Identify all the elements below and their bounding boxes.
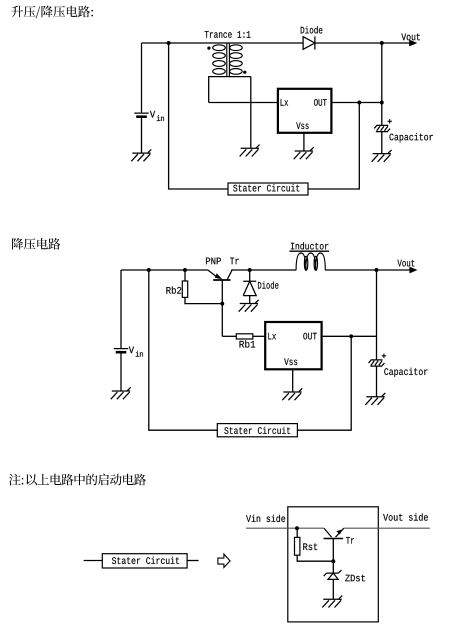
wire: Vout side wire <box>344 527 430 529</box>
wire: rail inductor to Vout <box>325 269 411 271</box>
wire: OUT to Vout column, circuit 1 <box>332 102 382 104</box>
wire: stater box left lead, detail <box>84 560 103 562</box>
label Vin (circuit 2) <box>129 347 143 357</box>
ground (secondary, circuit 1) <box>240 145 260 157</box>
ground (capacitor, circuit 2) <box>365 393 385 405</box>
pin label Lx (U1) <box>281 99 289 106</box>
capacitor (C1) <box>374 125 390 131</box>
stater circuit box S2 <box>217 424 297 437</box>
wire: diode anode lead <box>249 296 251 304</box>
label Capacitor (C2) <box>384 368 427 377</box>
op-amp/regulator IC U2 <box>265 322 321 369</box>
junction node (Rb2 tap) <box>183 268 187 272</box>
capacitor (C2) <box>369 360 385 366</box>
stater circuit box S3 <box>102 554 187 568</box>
label Vout side <box>383 513 428 520</box>
polarity dot (secondary) <box>243 71 246 74</box>
junction node (base/Rb2 junction) <box>220 302 224 306</box>
label Capacitor (C1) <box>390 133 433 142</box>
label Rb1 <box>240 340 256 347</box>
detail enclosure box <box>288 507 379 622</box>
inductor L1 <box>296 253 325 270</box>
wire: top rail to PNP emitter <box>121 269 208 271</box>
ground (capacitor, circuit 1) <box>372 150 392 162</box>
wire: stater circuit left feed <box>169 43 228 189</box>
wire: Rb2 top lead <box>184 270 186 281</box>
label Stater Circuit (circuit 1) <box>233 184 299 191</box>
section title: 注:以上电路中的启动电路 <box>9 474 146 486</box>
ground (battery, circuit 2) <box>111 387 131 399</box>
label Tr (startup) <box>346 537 354 544</box>
wire: base column to zener <box>332 539 334 574</box>
wire: battery negative to ground <box>141 117 143 153</box>
polarity dot (primary) <box>207 47 210 50</box>
op-amp/regulator IC U1 <box>278 89 332 133</box>
battery V2 Vin (circuit 2) <box>114 348 128 350</box>
ground (Vss, circuit 2) <box>282 388 302 400</box>
ground (diode, circuit 2) <box>239 300 259 312</box>
junction node (diode tap, circuit 2) <box>248 268 252 272</box>
wire: Lx feed, circuit 1 <box>209 102 277 104</box>
wire: battery negative to ground, circuit 2 <box>120 352 122 391</box>
wire: Rst top lead <box>296 528 298 537</box>
wire: stater box right lead, detail <box>187 560 199 562</box>
wire: rail PNP collector to inductor <box>231 269 296 271</box>
transformer core <box>227 43 230 76</box>
label Inductor <box>291 242 328 249</box>
diode D1 <box>303 36 315 49</box>
ground (battery, circuit 1) <box>131 149 151 161</box>
wire: inductor label underline <box>289 250 329 252</box>
label Diode (circuit 1) <box>301 26 323 33</box>
wire: Vss pin, circuit 2 <box>292 370 294 392</box>
section title: 降压电路 <box>12 238 60 250</box>
label Rb2 <box>166 286 181 293</box>
stater circuit box S1 <box>228 183 308 195</box>
transistor Q2 Tr (startup) <box>324 538 344 540</box>
wire: Vout column, circuit 2 <box>376 270 378 360</box>
pin label OUT (U2) <box>303 333 317 340</box>
label ZDst <box>345 575 365 582</box>
label Vout (circuit 2) <box>397 260 414 267</box>
pin label Vss (U2) <box>284 358 297 365</box>
wire: rail corner down to battery <box>120 270 122 349</box>
junction node (base/Rst junction) <box>331 559 335 563</box>
wire: stater circuit left feed, circuit 2 <box>149 270 218 430</box>
battery V1 Vin (circuit 1) <box>134 43 148 113</box>
label Rst <box>303 543 317 550</box>
wire: Vin side wire <box>246 527 324 529</box>
wire: Rb1 right lead <box>253 335 265 337</box>
zener diode ZDst <box>324 570 342 576</box>
wire: rail diode cathode to Vout <box>315 42 411 44</box>
wire: capacitor to ground, circuit 2 <box>376 366 378 397</box>
label Tr (circuit 2) <box>230 258 239 265</box>
wire: stater circuit right feed, circuit 2 <box>297 336 351 430</box>
label Vin side <box>246 515 285 522</box>
pin label Vss (U1) <box>296 122 308 129</box>
wire: OUT to Vout column, circuit 2 <box>323 335 377 337</box>
label Stater Circuit (detail) <box>112 557 179 564</box>
wire: Rst bottom to base <box>297 555 333 561</box>
label Vout (circuit 1) <box>401 34 420 41</box>
wire: base column to Rb1 <box>221 280 223 336</box>
junction node (Vout column tap, circuit 2) <box>375 268 379 272</box>
wire: diode cathode lead <box>249 270 251 281</box>
pin label OUT (U1) <box>314 99 327 106</box>
wire: capacitor to ground, circuit 1 <box>381 132 383 154</box>
junction node (stater right tap, circuit 2) <box>349 334 353 338</box>
junction node (stater right tap, circuit 1) <box>357 101 361 105</box>
wire: secondary to ground <box>250 77 252 149</box>
wire: Rb1 left lead <box>222 335 236 337</box>
label Vin (circuit 1) <box>150 111 164 121</box>
ground (Vss, circuit 1) <box>294 147 314 159</box>
junction node (stater tap, circuit 1) <box>167 41 171 45</box>
Vout arrow (circuit 2) <box>409 267 417 274</box>
ground (zener) <box>322 596 342 608</box>
junction node (Vout column tap, circuit 1) <box>380 41 384 45</box>
plus sign (C1) <box>388 119 392 123</box>
label PNP <box>206 258 221 265</box>
section title: 升压/降压电路: <box>11 6 93 19</box>
transformer T1 windings <box>213 45 243 75</box>
wire: top rail Vin to diode anode <box>142 42 304 44</box>
label Stater Circuit (circuit 2) <box>224 427 290 434</box>
wire: stater circuit right feed, circuit 1 <box>308 103 359 190</box>
plus sign (C2) <box>382 354 386 358</box>
wire: transformer bottom link <box>209 77 251 103</box>
wire: zener to ground <box>332 579 334 599</box>
wire: Vss pin, circuit 1 <box>303 133 305 151</box>
junction node (stater tap, circuit 2) <box>147 268 151 272</box>
label Trance 1:1 <box>205 31 251 38</box>
junction node (Rst tap) <box>295 526 299 530</box>
wire: Rb2 bottom to base <box>185 297 222 303</box>
big open arrow <box>218 554 230 567</box>
Vout arrow (circuit 1) <box>409 40 417 47</box>
label Diode (circuit 2) <box>258 281 278 288</box>
wire: Vout column, circuit 1 <box>381 43 383 125</box>
junction node (OUT/Vout junction, circuit 1) <box>380 101 384 105</box>
transistor Q1 PNP Tr <box>213 279 230 281</box>
pin label Lx (U2) <box>268 333 276 340</box>
